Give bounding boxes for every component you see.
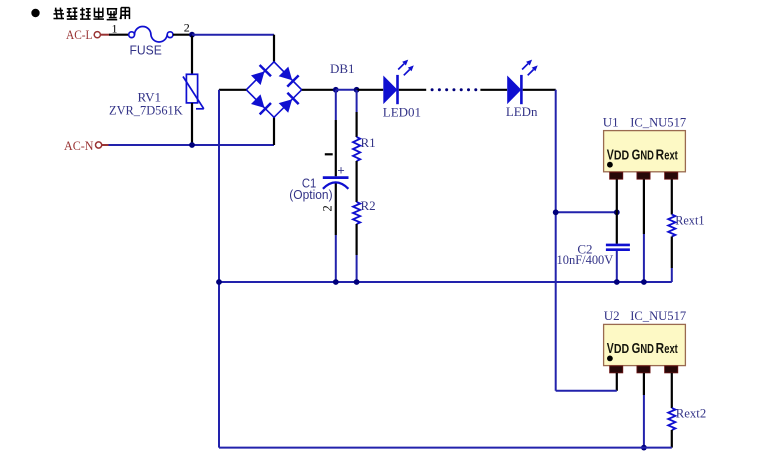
label LED01	[383, 105, 421, 120]
wire	[357, 89, 384, 91]
pin 2 label	[184, 21, 190, 35]
svg-text:2: 2	[321, 205, 335, 211]
capacitor C2	[606, 212, 630, 282]
LED LED01	[383, 60, 414, 105]
svg-text:VDDGNDRext: VDDGNDRext	[607, 148, 679, 164]
junction	[354, 279, 360, 285]
junction	[333, 279, 339, 285]
svg-text:R1: R1	[361, 135, 376, 150]
svg-text:IC_NU517: IC_NU517	[630, 115, 686, 130]
junction	[333, 87, 339, 93]
title text 並聯輸出應用	[54, 8, 130, 20]
wire	[399, 89, 426, 91]
label LEDn	[506, 104, 538, 119]
label IC_NU517 U2	[630, 308, 686, 323]
junction	[614, 209, 620, 215]
resistor R2	[353, 202, 360, 282]
wire	[643, 395, 645, 448]
svg-text:R2: R2	[361, 198, 376, 213]
svg-text:AC-L: AC-L	[66, 27, 93, 42]
pin 1 label C1	[325, 153, 333, 155]
junction	[553, 209, 559, 215]
label RV1	[138, 90, 162, 105]
junction	[216, 279, 222, 285]
wire	[109, 34, 129, 36]
wire node line	[556, 211, 617, 213]
junction node 2	[189, 32, 195, 38]
svg-text:10nF/400V: 10nF/400V	[557, 252, 614, 267]
wire	[336, 89, 357, 91]
label U2 pins VDD GND Rext	[607, 341, 679, 357]
svg-text:1: 1	[112, 21, 118, 35]
wire bridge right pin	[302, 89, 336, 91]
svg-text:IC_NU517: IC_NU517	[630, 308, 686, 323]
label U1 pins VDD GND Rext	[607, 148, 679, 164]
svg-text:(Option): (Option)	[289, 187, 332, 202]
wire	[192, 34, 274, 36]
LED LEDn	[507, 60, 538, 105]
resistor R1	[353, 90, 360, 161]
wire left vertical	[218, 90, 220, 448]
svg-text:Rext1: Rext1	[675, 212, 704, 227]
label Option	[289, 187, 332, 202]
svg-text:DB1: DB1	[330, 61, 355, 76]
svg-text:U1: U1	[603, 115, 619, 130]
wire bus1	[219, 281, 672, 283]
terminal AC-L	[66, 27, 110, 42]
label U1	[603, 115, 619, 130]
label C1	[302, 176, 316, 191]
wire dotted	[431, 88, 478, 91]
wire U2 VDD pin	[616, 373, 618, 391]
wire	[356, 161, 358, 202]
svg-text:ZVR_7D561K: ZVR_7D561K	[109, 102, 183, 117]
IC U2	[604, 324, 686, 373]
label Rext2	[676, 406, 706, 421]
junction	[641, 279, 647, 285]
svg-text:LEDn: LEDn	[506, 104, 538, 119]
svg-text:+: +	[337, 164, 344, 178]
label Rext1	[675, 212, 704, 227]
wire	[173, 34, 192, 36]
label IC_NU517 U1	[630, 115, 686, 130]
wire	[273, 35, 275, 62]
wire LED return vertical	[555, 90, 557, 391]
svg-text:AC-N: AC-N	[64, 138, 94, 153]
svg-text:VDDGNDRext: VDDGNDRext	[607, 341, 679, 357]
varistor RV1	[183, 36, 204, 145]
svg-text:2: 2	[184, 21, 190, 35]
wire U2 GND pin	[643, 373, 645, 395]
label FUSE	[130, 42, 163, 57]
junction	[189, 142, 195, 148]
label U2	[604, 308, 620, 323]
svg-text:U2: U2	[604, 308, 620, 323]
wire bridge left pin	[219, 89, 246, 91]
resistor Rext1	[668, 179, 675, 282]
wire U1 VDD pin	[616, 179, 618, 212]
svg-text:LED01: LED01	[383, 105, 421, 120]
label R2	[361, 198, 376, 213]
fuse FUSE	[129, 27, 173, 42]
wire	[480, 89, 507, 91]
svg-text:FUSE: FUSE	[130, 42, 163, 57]
junction	[641, 445, 647, 451]
label 10nF/400V	[557, 252, 614, 267]
wire	[556, 390, 617, 392]
wire	[523, 89, 556, 91]
terminal AC-N	[64, 138, 109, 153]
bridge rectifier DB1	[246, 62, 301, 118]
wire	[643, 234, 645, 282]
wire U1 GND pin	[643, 179, 645, 234]
IC U1	[604, 131, 686, 180]
junction	[354, 87, 360, 93]
wire	[273, 117, 275, 145]
label DB1	[330, 61, 355, 76]
resistor Rext2	[668, 373, 675, 448]
svg-text:Rext2: Rext2	[676, 406, 706, 421]
capacitor C1	[323, 90, 349, 282]
wire bus2	[219, 447, 672, 449]
title bullet	[31, 9, 39, 17]
label C2	[577, 242, 592, 257]
wire AC-N	[109, 144, 275, 146]
junction	[614, 279, 620, 285]
label R1	[361, 135, 376, 150]
pin 2 label C1	[321, 205, 335, 211]
label ZVR_7D561K	[109, 102, 183, 117]
pin 1 label	[112, 21, 118, 35]
